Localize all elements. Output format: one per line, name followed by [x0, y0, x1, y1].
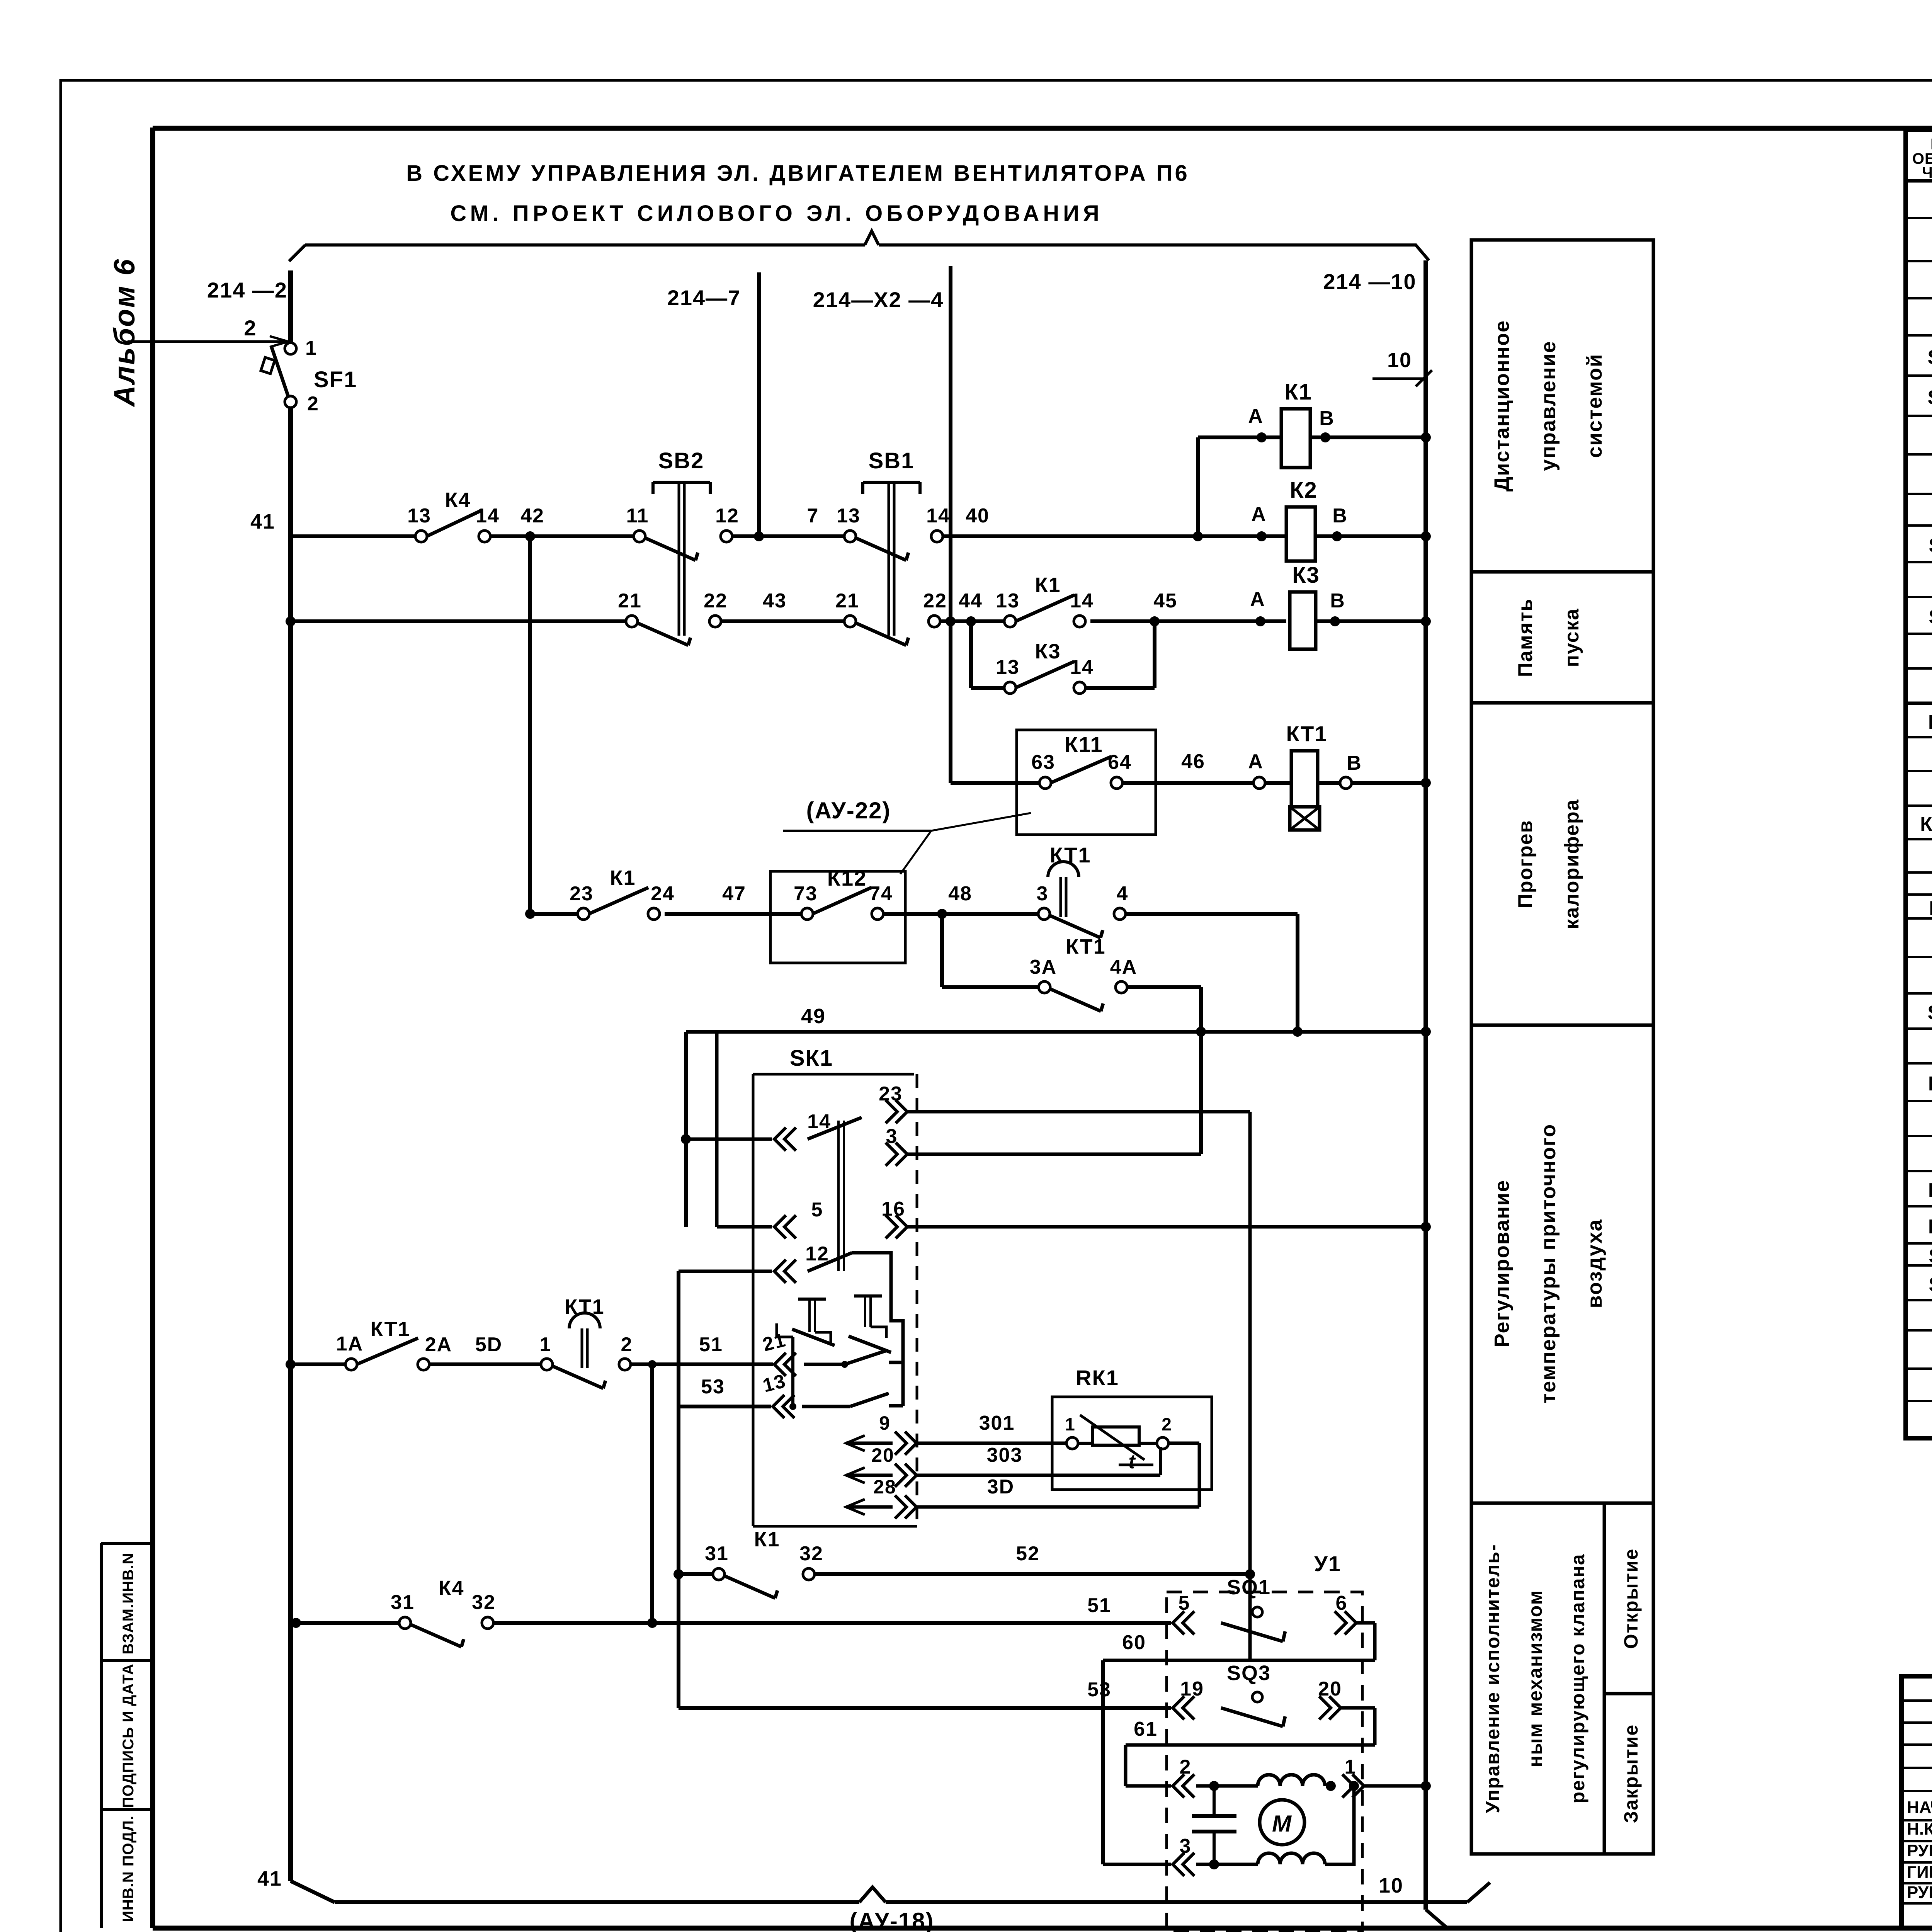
- function box start memory: [1471, 572, 1653, 703]
- svg-text:14: 14: [926, 505, 950, 527]
- svg-text:20: 20: [1318, 1678, 1342, 1700]
- svg-text:У1: У1: [1314, 1551, 1341, 1576]
- svg-text:воздуха: воздуха: [1583, 1219, 1606, 1308]
- svg-text:32: 32: [472, 1591, 496, 1614]
- svg-text:9: 9: [879, 1412, 891, 1434]
- svg-text:13: 13: [407, 505, 431, 527]
- svg-text:РУК.ГР.: РУК.ГР.: [1907, 1883, 1932, 1902]
- table header: [1912, 136, 1932, 181]
- svg-text:калорифера: калорифера: [1561, 799, 1583, 929]
- title block staff rows: [1907, 1797, 1932, 1902]
- wire 53 from SK1: [679, 1271, 771, 1708]
- drop from node 2 to SQ1 row: [650, 1364, 654, 1623]
- svg-text:пуска: пуска: [1561, 608, 1583, 667]
- svg-text:КТ1: КТ1: [370, 1318, 410, 1341]
- svg-text:3А: 3А: [1030, 956, 1057, 978]
- svg-text:42: 42: [520, 505, 544, 527]
- svg-text:SК3: SК3: [1929, 1274, 1932, 1296]
- svg-text:К4: К4: [439, 1577, 464, 1600]
- svg-text:SК1: SК1: [1929, 534, 1932, 557]
- svg-text:ЧЕНИЕ: ЧЕНИЕ: [1922, 164, 1932, 181]
- wire 46: [1122, 781, 1254, 785]
- pushbutton SB1 lower contact 21-22: [835, 590, 947, 645]
- junction row A / V2: [525, 531, 535, 541]
- svg-text:3D: 3D: [987, 1476, 1014, 1498]
- temperature regulator SK1 block: [753, 1046, 917, 1526]
- svg-text:RК1: RК1: [1076, 1366, 1119, 1390]
- bypass contact K3 13-14: [971, 621, 1155, 694]
- svg-text:SК1: SК1: [790, 1046, 833, 1071]
- SK1 contact 13: [760, 1323, 903, 1418]
- svg-text:РУК.СЕКТ.: РУК.СЕКТ.: [1907, 1841, 1932, 1860]
- arrow line to SF1 input: [128, 340, 287, 343]
- svg-text:13: 13: [996, 590, 1020, 612]
- svg-text:Альбом 6: Альбом 6: [108, 258, 141, 407]
- sensor wire 28-3D: [846, 1476, 1199, 1519]
- svg-text:45: 45: [1153, 590, 1177, 612]
- function box remote control: [1471, 240, 1653, 572]
- svg-text:К1.К2: К1.К2: [1920, 813, 1932, 835]
- svg-text:RК1: RК1: [1928, 1073, 1932, 1095]
- svg-text:ВЗАМ.ИНВ.N: ВЗАМ.ИНВ.N: [120, 1553, 137, 1654]
- junction 214-X2-4 / row B: [946, 616, 956, 626]
- svg-text:214 —10: 214 —10: [1323, 269, 1416, 294]
- svg-text:К1: К1: [1035, 573, 1061, 597]
- svg-text:В: В: [1332, 505, 1348, 527]
- left bus wire 41 top segment: [288, 270, 293, 342]
- relay coil K1: [1198, 379, 1431, 536]
- svg-text:К2: К2: [1290, 478, 1318, 503]
- SK1 contact 21: [760, 1329, 903, 1376]
- svg-text:303: 303: [987, 1444, 1023, 1466]
- cable bracket line to sheet 214: [305, 243, 865, 247]
- junction row B / V1: [286, 616, 296, 626]
- svg-text:RК3: RК3: [1928, 1216, 1932, 1238]
- svg-text:21: 21: [835, 590, 859, 612]
- motor feed row 2: [1126, 1756, 1258, 1798]
- relay block K12: [770, 866, 905, 963]
- svg-text:Регулирование: Регулирование: [1490, 1180, 1514, 1347]
- svg-text:28: 28: [873, 1476, 896, 1498]
- sensor wire 9-301: [846, 1412, 1067, 1455]
- svg-text:47: 47: [722, 883, 746, 905]
- sensor wire 20-303: [846, 1444, 1160, 1487]
- svg-text:19: 19: [1180, 1678, 1204, 1700]
- svg-text:(АУ-22): (АУ-22): [806, 798, 891, 823]
- svg-text:температуры приточного: температуры приточного: [1537, 1124, 1560, 1403]
- svg-text:51: 51: [699, 1333, 723, 1356]
- svg-text:СМ. ПРОЕКТ СИЛОВОГО ЭЛ.: СМ. ПРОЕКТ СИЛОВОГО ЭЛ. ОБОРУДОВАНИЯ: [450, 201, 1103, 226]
- wire 60 loop: [1103, 1631, 1375, 1660]
- svg-text:К1: К1: [754, 1528, 780, 1551]
- svg-text:23: 23: [879, 1083, 903, 1105]
- row 47 wire: [525, 909, 535, 919]
- junction 48: [937, 909, 947, 919]
- note AU-22: [783, 798, 1031, 874]
- row B wire segments: [291, 619, 626, 623]
- svg-text:22: 22: [704, 590, 728, 612]
- svg-text:74: 74: [869, 883, 893, 905]
- svg-text:2: 2: [1180, 1756, 1192, 1778]
- bottom rail to sheet AU-18: [335, 1883, 1490, 1902]
- svg-text:214—X2 —4: 214—X2 —4: [813, 287, 944, 312]
- pushbutton SB2 lower contact 21-22: [618, 590, 728, 645]
- SK1 lower button T2: [849, 1296, 891, 1352]
- svg-text:2А: 2А: [425, 1333, 452, 1356]
- svg-text:24: 24: [651, 883, 675, 905]
- svg-text:В: В: [1347, 752, 1362, 774]
- svg-text:1А: 1А: [336, 1333, 363, 1355]
- pushbutton SB1 upper contact 13-14: [837, 448, 950, 636]
- svg-text:К3: К3: [1292, 563, 1320, 588]
- svg-text:Н.КОНТР.: Н.КОНТР.: [1907, 1820, 1932, 1838]
- function box close: [1604, 1694, 1653, 1854]
- svg-text:4: 4: [1117, 883, 1129, 905]
- time relay coil KT1: [1248, 721, 1431, 830]
- SK1 sensor stem: [837, 1121, 840, 1271]
- svg-text:системой: системой: [1583, 354, 1606, 458]
- motor winding top: [1258, 1775, 1325, 1786]
- function box heater warmup: [1471, 703, 1653, 1025]
- svg-text:60: 60: [1122, 1631, 1146, 1654]
- label 10 top with arrow: [1372, 349, 1432, 386]
- svg-text:10: 10: [1379, 1874, 1403, 1897]
- motor winding bottom: [1258, 1853, 1325, 1864]
- relay coil K3: [1250, 563, 1431, 649]
- svg-text:SB2: SB2: [658, 448, 704, 473]
- function box open: [1604, 1503, 1653, 1694]
- svg-text:214—7: 214—7: [667, 286, 741, 310]
- wire from 4 to node 49 drop: [1296, 914, 1299, 1032]
- svg-text:63: 63: [1031, 751, 1055, 774]
- valve unit U1 boundary: [1167, 1592, 1362, 1932]
- capacitor: [1192, 1786, 1236, 1864]
- wire 42 vertical V2: [528, 536, 532, 914]
- svg-text:А: А: [1248, 750, 1264, 773]
- thermal sensor RK1: [1052, 1366, 1212, 1507]
- SK1 lower button T1: [792, 1299, 835, 1345]
- svg-text:5D: 5D: [475, 1333, 502, 1356]
- svg-text:16: 16: [881, 1198, 905, 1220]
- title block frame: [1901, 1676, 1932, 1928]
- svg-text:12: 12: [715, 505, 739, 527]
- contact K1 31-32 row 52: [673, 1528, 1255, 1864]
- svg-text:12: 12: [805, 1243, 829, 1265]
- svg-text:53: 53: [1087, 1679, 1111, 1701]
- svg-text:13: 13: [996, 656, 1020, 679]
- wire 49: [686, 1030, 1426, 1034]
- svg-text:SК2: SК2: [1929, 1245, 1932, 1267]
- svg-text:ГИП: ГИП: [1907, 1863, 1932, 1882]
- svg-text:44: 44: [959, 590, 983, 612]
- svg-text:7: 7: [807, 505, 819, 527]
- svg-text:41: 41: [250, 510, 275, 533]
- svg-text:SF1: SF1: [314, 367, 357, 392]
- svg-text:М: М: [1272, 1811, 1292, 1837]
- contact K4 13-14 row A: [407, 488, 500, 542]
- svg-text:32: 32: [799, 1543, 823, 1565]
- svg-text:13: 13: [837, 505, 861, 527]
- svg-text:5: 5: [1179, 1592, 1190, 1614]
- sidebar stamp boxes: [101, 1543, 153, 1928]
- SK1 contact 5-16: [717, 1032, 1431, 1238]
- svg-text:21: 21: [618, 590, 642, 612]
- svg-text:В СХЕМУ УПРАВЛЕНИЯ ЭЛ: В СХЕМУ УПРАВЛЕНИЯ ЭЛ. ДВИГАТЕЛЕМ ВЕНТИЛ…: [406, 161, 1190, 186]
- svg-text:49: 49: [801, 1005, 826, 1028]
- svg-text:40: 40: [966, 505, 990, 527]
- svg-text:31: 31: [705, 1543, 729, 1565]
- svg-text:КТ1: КТ1: [1929, 897, 1932, 920]
- svg-text:НАЧ.ОТД.: НАЧ.ОТД.: [1907, 1798, 1932, 1817]
- svg-text:К4: К4: [445, 488, 471, 512]
- relay coil K2: [1251, 478, 1431, 561]
- svg-text:1: 1: [1065, 1414, 1076, 1434]
- svg-text:2: 2: [244, 316, 257, 340]
- svg-text:К1: К1: [1284, 379, 1312, 405]
- svg-text:КТ1: КТ1: [1050, 843, 1091, 867]
- function box valve actuator control: [1471, 1503, 1604, 1854]
- svg-text:(АУ-18): (АУ-18): [849, 1908, 934, 1932]
- parts table grid: [1906, 130, 1932, 1438]
- svg-text:46: 46: [1181, 750, 1205, 773]
- bypass contact KT1 3A-4A: [942, 914, 1201, 1154]
- svg-text:301: 301: [979, 1412, 1015, 1434]
- SK1 contact 12: [679, 1243, 903, 1406]
- svg-text:14: 14: [1070, 590, 1094, 612]
- svg-text:Открытие: Открытие: [1620, 1548, 1642, 1649]
- svg-text:Управление исполнитель-: Управление исполнитель-: [1482, 1544, 1503, 1813]
- limit switch SQ1 row 51: [1087, 1576, 1375, 1660]
- svg-text:ПОДПИСЬ И ДАТА: ПОДПИСЬ И ДАТА: [120, 1663, 137, 1808]
- svg-text:КТ1: КТ1: [1066, 935, 1105, 958]
- svg-text:В: В: [1319, 407, 1335, 430]
- svg-text:SQ1: SQ1: [1227, 1576, 1271, 1599]
- svg-text:SВ2: SВ2: [1927, 386, 1932, 409]
- wire 214-7 vertical: [757, 272, 761, 536]
- svg-text:10: 10: [1387, 349, 1412, 372]
- svg-text:73: 73: [794, 883, 818, 905]
- svg-text:6: 6: [1336, 1592, 1348, 1614]
- svg-text:64: 64: [1108, 751, 1132, 774]
- svg-text:3: 3: [1037, 883, 1049, 905]
- svg-text:Закрытие: Закрытие: [1620, 1724, 1642, 1823]
- svg-text:А: А: [1250, 588, 1265, 611]
- right bus wire 10: [1423, 260, 1428, 1910]
- svg-text:14: 14: [1070, 656, 1094, 679]
- svg-text:Прогрев: Прогрев: [1514, 820, 1537, 908]
- function box air temperature regulation: [1471, 1025, 1653, 1503]
- svg-text:1: 1: [305, 337, 317, 359]
- junction 45: [1150, 616, 1160, 626]
- svg-text:К3: К3: [1035, 640, 1061, 663]
- svg-text:1: 1: [540, 1333, 552, 1356]
- svg-text:К11: К11: [1065, 732, 1103, 757]
- svg-text:53: 53: [701, 1376, 725, 1398]
- left bus bottom elbow to rail: [291, 1881, 335, 1902]
- left bus wire 41 main: [288, 407, 293, 1881]
- wire 61 loop: [1126, 1718, 1375, 1786]
- svg-text:КТ1: КТ1: [1286, 721, 1328, 746]
- svg-text:3: 3: [1180, 1835, 1192, 1857]
- svg-text:В: В: [1330, 590, 1345, 612]
- svg-text:SF1: SF1: [1929, 606, 1932, 628]
- motor feed row 3: [1103, 1835, 1258, 1876]
- junction 44: [966, 616, 976, 626]
- svg-text:А: А: [1251, 503, 1267, 526]
- svg-text:SВ1: SВ1: [1927, 346, 1932, 369]
- row 50 wire with KT1 contacts: [286, 1295, 773, 1388]
- bus end tick: [1426, 1910, 1448, 1929]
- svg-text:1: 1: [1345, 1756, 1357, 1778]
- svg-text:SВ3: SВ3: [1927, 1002, 1932, 1024]
- wire 49 left drop to SK1: [684, 1032, 688, 1227]
- relay block K11 (AU-22): [1017, 730, 1156, 835]
- svg-text:ным механизмом: ным механизмом: [1524, 1590, 1546, 1767]
- SK1 contact output 3: [886, 1125, 1201, 1166]
- svg-text:регулирующего клапана: регулирующего клапана: [1567, 1553, 1588, 1803]
- svg-text:5: 5: [811, 1199, 823, 1221]
- svg-text:К1: К1: [610, 866, 636, 889]
- svg-text:Дистанционное: Дистанционное: [1490, 320, 1514, 492]
- svg-text:22: 22: [923, 590, 947, 612]
- svg-text:t: t: [1128, 1451, 1136, 1473]
- svg-text:61: 61: [1134, 1718, 1158, 1740]
- svg-text:43: 43: [763, 590, 787, 612]
- svg-text:А: А: [1248, 405, 1264, 427]
- wire 214-X2-4 vertical: [949, 266, 952, 783]
- svg-text:Память: Память: [1514, 598, 1537, 677]
- motor M: [1260, 1800, 1304, 1845]
- svg-text:51: 51: [1087, 1594, 1111, 1617]
- svg-text:3: 3: [886, 1125, 898, 1148]
- breaker SF1: [261, 343, 357, 408]
- svg-text:SQ3: SQ3: [1227, 1662, 1271, 1685]
- row A wire segments: [291, 534, 416, 538]
- svg-text:41: 41: [257, 1867, 282, 1890]
- contact K1 23-24: [570, 866, 675, 920]
- junction row A / K1 branch: [1193, 531, 1203, 541]
- svg-text:20: 20: [871, 1444, 895, 1466]
- node 1 to bus: [1326, 1756, 1431, 1798]
- SK1 contact 14-23: [686, 1083, 1250, 1660]
- wire 214-X2-4 elbow to K11: [951, 781, 1040, 785]
- svg-text:2: 2: [621, 1333, 633, 1356]
- svg-text:НL1: НL1: [1928, 711, 1932, 733]
- time contact KT1 3-4: [1037, 843, 1129, 938]
- svg-text:2: 2: [307, 393, 319, 415]
- svg-text:ИНВ.N ПОДЛ.: ИНВ.N ПОДЛ.: [120, 1815, 137, 1922]
- contact K1 13-14 row B: [996, 573, 1094, 627]
- contact K4 31-32: [291, 1577, 1171, 1647]
- svg-text:SB1: SB1: [869, 448, 915, 473]
- svg-text:4А: 4А: [1110, 956, 1137, 978]
- svg-text:23: 23: [570, 883, 594, 905]
- svg-text:К12: К12: [827, 866, 867, 890]
- winding return wire: [1325, 1786, 1354, 1864]
- svg-text:31: 31: [391, 1591, 415, 1614]
- svg-text:48: 48: [948, 883, 972, 905]
- svg-text:2: 2: [1162, 1414, 1172, 1434]
- svg-text:214 —2: 214 —2: [207, 278, 287, 302]
- svg-text:КТ1: КТ1: [565, 1295, 604, 1318]
- svg-text:14: 14: [476, 505, 500, 527]
- svg-text:11: 11: [626, 505, 649, 527]
- svg-text:52: 52: [1016, 1543, 1040, 1565]
- junction row A / 214-7: [754, 531, 764, 541]
- svg-text:RК2: RК2: [1928, 1179, 1932, 1202]
- svg-text:управление: управление: [1537, 340, 1560, 471]
- pushbutton SB2 upper contact 11-12: [626, 448, 739, 636]
- limit switch SQ3 row 53: [679, 1662, 1375, 1745]
